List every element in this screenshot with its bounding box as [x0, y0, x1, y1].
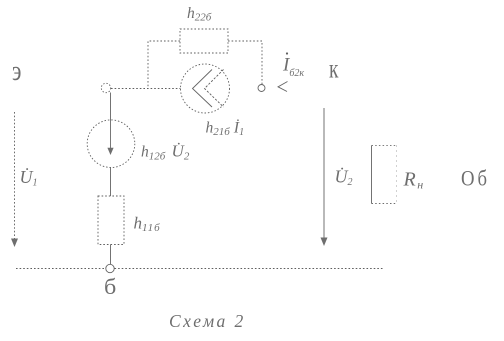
chevron 2 of current source: [205, 70, 224, 108]
voltage source internal arrow shaft: [110, 120, 112, 149]
svg-text:U̇2: U̇2: [335, 166, 353, 188]
svg-text:U̇1: U̇1: [20, 166, 38, 188]
dot of I2 label: [286, 52, 288, 54]
current I2 arrowhead pointing left: [278, 82, 288, 92]
chevron 1 of current source: [193, 70, 213, 108]
bottom wire right: [115, 268, 385, 270]
wire resistor h11b to bottom node: [110, 245, 112, 265]
load resistor Rn left edge: [371, 146, 373, 204]
voltage source internal arrowhead: [107, 148, 113, 155]
load resistor Rn bottom edge: [372, 203, 397, 205]
voltage U1 arrow line: [14, 112, 16, 239]
voltage U1 arrowhead: [11, 239, 18, 248]
svg-text:б: б: [104, 275, 116, 300]
svg-text:Iб2к: Iб2к: [282, 55, 304, 80]
svg-text:к: к: [329, 55, 339, 85]
svg-text:э: э: [12, 57, 21, 87]
svg-text:h22б: h22б: [187, 5, 212, 24]
resistor h11b box: [98, 196, 124, 245]
svg-text:h11б: h11б: [134, 214, 161, 235]
svg-text:Rн: Rн: [403, 169, 424, 192]
voltage U2 arrow line: [323, 108, 325, 238]
svg-text:Об: Об: [461, 167, 490, 191]
wire voltage source to resistor h11b: [110, 168, 112, 197]
wire resistor h22b left to node b line: [148, 41, 180, 89]
load resistor Rn right edge: [396, 146, 398, 204]
bottom node terminal circle: [106, 264, 114, 272]
wire node b' down to voltage source: [110, 93, 112, 121]
svg-text:h12б U̇2: h12б U̇2: [141, 142, 190, 163]
voltage U2 arrowhead: [321, 238, 328, 247]
dependent voltage source h12b*U2 circle: [87, 120, 135, 168]
current source h21b*I1 circle: [181, 64, 230, 113]
wire resistor h22b right down to collector terminal: [228, 41, 262, 85]
wire node b' to current source: [111, 88, 181, 90]
bottom wire left: [16, 268, 106, 270]
collector terminal circle k: [258, 85, 265, 92]
svg-text:Схема 2: Схема 2: [169, 311, 246, 331]
resistor h22b box: [180, 29, 228, 53]
svg-text:h21б İ1: h21б İ1: [206, 119, 245, 139]
load resistor Rn box: [372, 145, 397, 147]
node b' terminal circle: [101, 83, 110, 92]
